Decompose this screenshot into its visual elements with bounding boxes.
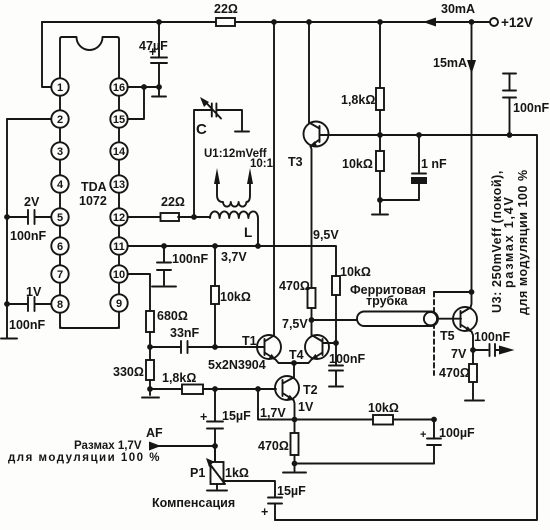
junction dot rail/47µF: [156, 19, 162, 25]
pin 16: [110, 78, 127, 95]
junction dot 470Ω/return line: [292, 461, 298, 467]
junction dot T2 base node: [255, 386, 261, 392]
transistor Q T3 (2N3904): [308, 22, 310, 123]
junction dot rail/15mA branch: [469, 19, 475, 25]
svg-text:+: +: [200, 410, 207, 424]
capacitor 100nF at pin5: [7, 216, 51, 218]
junction dot 10k(T1)/pin11 bus: [212, 243, 218, 249]
transformer secondary winding with probe arrows: [217, 178, 250, 207]
svg-text:22Ω: 22Ω: [214, 2, 238, 16]
junction dot T5 emitter / 7V node: [470, 347, 476, 353]
pin 12: [110, 208, 127, 225]
capacitor 100nF (top right): [503, 73, 516, 75]
wire T1 base: [215, 346, 264, 348]
svg-text:TDA: TDA: [81, 180, 107, 194]
svg-text:7V: 7V: [451, 347, 467, 361]
transistor Q T4 (2N3904): [305, 335, 329, 359]
capacitor 15µF (compensation): [268, 498, 282, 504]
resistor 470Ω (T3 emitter): [308, 288, 316, 308]
transistor Q T5 (2N3904): [453, 307, 477, 331]
pin 2: [51, 110, 68, 127]
junction dot 330/1.8k: [147, 386, 153, 392]
junction dot 100nF/pin11 bus: [161, 243, 167, 249]
svg-text:100nF: 100nF: [474, 330, 510, 344]
svg-text:2: 2: [57, 114, 63, 126]
svg-text:для модуляции 100 %: для модуляции 100 %: [516, 169, 530, 315]
pin 4: [51, 175, 68, 192]
ground 100nF T4: [329, 386, 343, 388]
pin 14: [110, 142, 127, 159]
pin 10: [110, 265, 127, 282]
svg-text:470Ω: 470Ω: [258, 439, 289, 453]
svg-text:Компенсация: Компенсация: [152, 496, 235, 510]
wire pin15 up to pin16 wire: [128, 87, 144, 119]
wire tuning cap C right leg: [217, 110, 242, 130]
svg-text:100nF: 100nF: [172, 252, 208, 266]
ground C: [235, 131, 249, 133]
wire T1 collector to rail: [273, 22, 275, 336]
wire 10kΩ line T2 emitter to 100µF node: [295, 419, 435, 421]
arrow AF input: [149, 442, 161, 451]
svg-text:2V: 2V: [24, 195, 40, 209]
wire T5 emitter to output node: [472, 332, 474, 351]
capacitor C variable (trimmer): [212, 104, 217, 117]
svg-text:C: C: [196, 121, 207, 138]
svg-text:33nF: 33nF: [170, 326, 200, 340]
svg-text:1 nF: 1 nF: [421, 157, 447, 171]
wire 330Ω node to 1.8kΩ: [150, 388, 182, 390]
svg-text:10kΩ: 10kΩ: [340, 265, 371, 279]
wire T5 collector supply link: [434, 291, 472, 293]
junction dot pin15/pin16 wires: [141, 84, 147, 90]
junction dot L/pin11 bus: [255, 243, 261, 249]
svg-text:1V: 1V: [298, 400, 314, 414]
svg-text:30mA: 30mA: [441, 2, 475, 16]
svg-text:11: 11: [113, 241, 125, 253]
wire pin11 bus (3.7V node): [128, 246, 336, 276]
capacitor 1nF: [380, 135, 419, 200]
svg-text:14: 14: [113, 146, 126, 158]
pin 9: [110, 294, 127, 311]
wire 330Ω to ground/1.8k: [149, 380, 151, 395]
wire pin16 to 47µF node: [128, 86, 159, 88]
wire pin2 to left bypass rail: [7, 118, 51, 120]
ground 100nF pin11: [152, 286, 176, 288]
svg-text:1072: 1072: [79, 194, 107, 208]
capacitor 15µF (AF coupling): [214, 389, 216, 461]
resistor 1,8kΩ (horizontal): [182, 385, 203, 395]
svg-text:1,8kΩ: 1,8kΩ: [162, 371, 196, 385]
junction dot 47µF/pin16: [156, 84, 162, 90]
svg-text:1kΩ: 1kΩ: [225, 466, 249, 480]
wire pin10 to 680Ω: [128, 274, 150, 311]
svg-text:размах 1,4V: размах 1,4V: [502, 195, 516, 288]
wire AF input line: [159, 445, 215, 447]
potentiometer P1 1kΩ: [214, 446, 216, 462]
pin 8: [51, 295, 68, 312]
junction dot rail/1V cap: [4, 301, 10, 307]
pin 11: [110, 237, 127, 254]
svg-text:P1: P1: [190, 466, 205, 480]
resistor 470Ω (T5 emitter): [472, 350, 474, 399]
svg-text:15µF: 15µF: [222, 409, 251, 423]
svg-text:470Ω: 470Ω: [279, 279, 310, 293]
svg-text:100nF: 100nF: [513, 101, 549, 115]
ground 330Ω: [142, 397, 159, 399]
resistor 470Ω (T2 emitter): [291, 433, 299, 455]
svg-text:10kΩ: 10kΩ: [368, 401, 399, 415]
svg-text:3,7V: 3,7V: [221, 250, 247, 264]
pin 6: [51, 237, 68, 254]
svg-text:100nF: 100nF: [329, 352, 365, 366]
svg-text:9: 9: [116, 298, 122, 310]
svg-text:680Ω: 680Ω: [157, 309, 188, 323]
svg-text:6: 6: [57, 241, 63, 253]
svg-text:1,7V: 1,7V: [260, 406, 286, 420]
svg-text:100µF: 100µF: [439, 426, 475, 440]
ground T5 470Ω: [465, 400, 484, 402]
capacitor C 47µF: [158, 22, 160, 95]
junction dot 100nF bottom: [507, 132, 513, 138]
svg-text:1,8kΩ: 1,8kΩ: [341, 93, 375, 107]
svg-text:7,5V: 7,5V: [282, 317, 308, 331]
junction dot rail/T3 collector: [306, 19, 312, 25]
svg-text:470Ω: 470Ω: [439, 366, 470, 380]
wire P1 wiper to 15µF bottom: [224, 481, 275, 497]
svg-text:1V: 1V: [26, 285, 42, 299]
svg-text:12: 12: [113, 212, 125, 224]
wire 470Ω to ground line: [294, 455, 296, 471]
resistor 1,8kΩ (T3 divider): [379, 22, 381, 200]
wire return line to 100µF: [295, 463, 435, 465]
svg-text:AF: AF: [146, 426, 163, 440]
wire T3 base to divider: [320, 134, 381, 136]
junction dot rail/T1 collector: [271, 19, 277, 25]
svg-text:5: 5: [57, 212, 63, 224]
junction dot 10k/100µF: [431, 417, 437, 423]
wire pin12 to 22Ω: [128, 216, 161, 218]
junction dot 7.5V node: [309, 317, 315, 323]
svg-text:для модуляции 100 %: для модуляции 100 %: [8, 452, 161, 464]
resistor 330Ω: [146, 360, 154, 380]
svg-text:+12V: +12V: [501, 15, 533, 30]
svg-text:22Ω: 22Ω: [161, 195, 185, 209]
junction dot 15µF tap: [212, 386, 218, 392]
wire 22Ω to L: [178, 216, 210, 218]
ground T2 470Ω: [283, 472, 306, 474]
svg-text:+: +: [149, 45, 156, 59]
resistor 10kΩ (pin11 to T1 base): [214, 246, 216, 347]
transistor Q T2 (2N3904): [275, 376, 299, 400]
pin 15: [110, 110, 127, 127]
junction dot T1 base node: [212, 344, 218, 350]
ground left rail: [1, 336, 17, 339]
inductor L primary winding: [210, 211, 258, 246]
ground P1: [207, 490, 227, 492]
junction dot rail/2V cap: [4, 214, 10, 220]
arrow output: [499, 346, 515, 355]
wire T3 emitter down to 470Ω: [311, 146, 312, 288]
svg-text:4: 4: [57, 179, 64, 191]
wire T5 collector up: [471, 292, 472, 308]
junction dot tuning node: [191, 214, 197, 220]
svg-text:8: 8: [57, 299, 63, 311]
junction dot divider bottom: [377, 197, 383, 203]
resistor 10kΩ (T3 divider): [376, 151, 384, 171]
ground 47µF: [152, 96, 166, 98]
junction dot T1/T4 emitters: [291, 360, 297, 366]
wire pin1 to top rail: [42, 22, 51, 87]
pin 13: [110, 175, 127, 192]
wire T3 base bus (to right edge): [275, 135, 537, 520]
capacitor 33nF: [150, 346, 215, 348]
svg-text:5x2N3904: 5x2N3904: [208, 358, 266, 372]
wire 680Ω to 330Ω: [149, 332, 151, 360]
svg-text:T5: T5: [440, 329, 455, 343]
svg-text:T1: T1: [242, 334, 257, 348]
svg-text:T4: T4: [289, 348, 304, 362]
wire +12V top supply rail: [42, 21, 490, 23]
wire 470Ω to 7.5V node: [311, 308, 313, 320]
wire tube to T5 base: [437, 318, 461, 320]
resistor 10kΩ (9.5V to T4 base): [332, 276, 340, 295]
junction dot T4 base: [333, 340, 339, 346]
resistor R 22Ω (top rail): [216, 18, 235, 26]
wire common emitters to T2 collector: [293, 363, 295, 378]
wire 7.5V node to ferrite tube: [312, 319, 359, 321]
pin 3: [51, 142, 68, 159]
wire 1.8k to T2 base: [203, 388, 276, 390]
capacitor 100nF (T4 base): [329, 366, 343, 371]
ferrite tube: [357, 312, 438, 327]
pin 7: [51, 265, 68, 282]
capacitor 100µF: [433, 420, 435, 464]
svg-text:10:1: 10:1: [250, 158, 274, 170]
svg-text:L: L: [244, 225, 252, 240]
junction dot AF/P1: [212, 443, 218, 449]
capacitor 100nF at pin8: [7, 303, 51, 305]
svg-text:T2: T2: [303, 383, 318, 397]
terminal +12V: [490, 18, 498, 26]
svg-text:15: 15: [113, 114, 125, 126]
wire T4 emitter to common node: [294, 360, 312, 364]
transistor Q T1 (2N3904): [257, 335, 281, 359]
junction dot 1nF top: [416, 132, 422, 138]
wire T4 base to 10k: [323, 342, 337, 344]
svg-text:10kΩ: 10kΩ: [220, 290, 251, 304]
pin 1: [51, 78, 68, 95]
svg-text:1: 1: [57, 82, 63, 94]
wire T4 collector up to 7.5V node: [312, 320, 313, 336]
svg-text:3: 3: [57, 146, 63, 158]
junction dot T5 collector: [469, 289, 475, 295]
wire P1 bottom stub: [216, 484, 218, 489]
capacitor 100nF (pin11 decoupling): [163, 246, 165, 285]
junction dot T2 emitter/10k line: [292, 417, 298, 423]
wire T2 emitter down: [294, 400, 295, 433]
svg-text:10kΩ: 10kΩ: [342, 157, 373, 171]
svg-text:+: +: [420, 429, 426, 441]
svg-text:трубка: трубка: [366, 294, 409, 308]
ground divider: [372, 200, 388, 215]
svg-text:T3: T3: [288, 155, 303, 169]
resistor 22Ω (pin12): [161, 213, 180, 221]
svg-text:9,5V: 9,5V: [313, 228, 339, 242]
svg-text:15mA: 15mA: [433, 56, 467, 70]
svg-text:15µF: 15µF: [277, 484, 306, 498]
wire 1,7V feedback corner: [258, 389, 295, 420]
arrow 30mA current (left): [423, 18, 436, 27]
junction dot rail/1.8k divider: [377, 19, 383, 25]
resistor 10kΩ (horizontal): [373, 415, 393, 425]
svg-text:100nF: 100nF: [9, 318, 45, 332]
wire tuning cap C left leg: [194, 110, 211, 217]
resistor 680Ω: [146, 311, 154, 332]
wire 15mA feed (x=471.5 vertical): [471, 22, 473, 292]
wire dashed shield line: [433, 292, 435, 375]
wire T4 base node down to 100nF: [335, 295, 337, 365]
svg-text:10: 10: [113, 269, 125, 281]
svg-text:13: 13: [113, 179, 125, 191]
op-amp U1 IC TDA1072 body: [60, 37, 119, 87]
junction dot 680/330/33nF: [147, 344, 153, 350]
capacitor 100nF (output): [473, 349, 501, 351]
wire left bypass rail: [6, 119, 8, 336]
svg-text:+: +: [261, 505, 268, 519]
wire T1 emitter to common node: [276, 360, 295, 364]
junction dot divider/T3 base: [377, 132, 383, 138]
svg-text:Размах 1,7V: Размах 1,7V: [74, 440, 142, 452]
svg-text:100nF: 100nF: [10, 229, 46, 243]
pin 5: [51, 208, 68, 225]
svg-text:330Ω: 330Ω: [113, 365, 144, 379]
arrow 15mA current (down): [467, 60, 476, 74]
svg-text:16: 16: [113, 82, 125, 94]
svg-text:7: 7: [57, 269, 63, 281]
